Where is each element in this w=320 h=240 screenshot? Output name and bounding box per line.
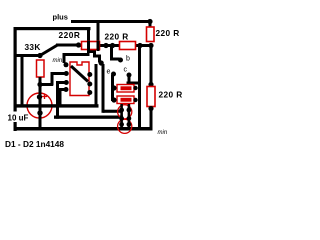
IC pin8 top right: [99, 60, 104, 65]
diode D2 body: [117, 96, 134, 104]
diode D2 left pin: [111, 97, 116, 102]
diode D2 right pin: [133, 98, 137, 102]
IC pin4: [64, 87, 69, 92]
wire pin2 bar: [51, 72, 66, 75]
IC pin7 inner bottom: [87, 90, 92, 95]
wire drop from border top: [87, 28, 90, 53]
wire crossing R1 right: [97, 41, 100, 51]
svg-text:10 uF: 10 uF: [8, 114, 29, 123]
resistor R3 220R body: [147, 27, 155, 42]
wire R4 top feed: [150, 46, 153, 85]
node R4 top: [148, 82, 153, 87]
wire plus rail: [71, 20, 151, 23]
wire U right leg: [95, 64, 98, 108]
svg-text:33K: 33K: [25, 42, 41, 52]
wire R1 row left: [56, 44, 80, 47]
LED pin m1: [119, 116, 124, 121]
wire diode bus vertical: [138, 46, 141, 128]
IC pin2: [64, 71, 69, 76]
capacitor C1 bottom pin: [37, 110, 42, 115]
wire c down: [128, 75, 131, 84]
wire LED left leg: [120, 104, 123, 128]
node R2 left b: [110, 43, 115, 48]
wire x60 vertical: [59, 88, 62, 108]
label 10 uF: [7, 112, 28, 123]
wire x52 vertical: [51, 73, 54, 86]
diode D1 right pin: [133, 86, 137, 90]
capacitor C1 circle: [27, 93, 52, 118]
node R4 bottom: [148, 106, 153, 111]
wire right drop x103: [102, 64, 105, 113]
svg-text:plus: plus: [53, 13, 68, 22]
svg-text:c: c: [124, 67, 128, 74]
transistor pin b: [118, 58, 123, 63]
wire base bar y104: [15, 104, 99, 107]
LED pin m2: [126, 116, 131, 121]
wire b bar: [110, 58, 120, 61]
wire node right bar: [39, 83, 53, 86]
svg-text:min: min: [53, 58, 63, 64]
wire bar to LED top: [103, 110, 123, 113]
svg-text:D1 - D2 1n4148: D1 - D2 1n4148: [5, 139, 64, 149]
IC pin5 inner top: [87, 72, 92, 77]
wire diagonal to R1 row: [40, 45, 58, 56]
resistor R2 220R body: [120, 42, 136, 50]
node 33K bottom: [37, 82, 42, 87]
wire 33K row: [15, 54, 41, 57]
wire staircase right step3: [93, 55, 100, 58]
svg-text:b: b: [126, 56, 130, 63]
IC pin6 inner mid: [87, 82, 92, 87]
svg-text:220 R: 220 R: [156, 28, 180, 38]
wire 33K left drop: [21, 55, 24, 106]
wire resistor row bus: [80, 44, 152, 47]
wire x57 vertical to bottom: [56, 81, 59, 119]
wire R3 top lead: [149, 22, 152, 28]
wire border left: [14, 27, 17, 131]
diode D1 body: [117, 85, 134, 93]
resistor R5 33K body: [37, 60, 45, 77]
wire staircase right step4: [98, 55, 101, 63]
wire pin4 bar: [59, 88, 67, 91]
wire 33K to node: [39, 77, 42, 85]
LED pin a2: [126, 108, 131, 113]
svg-text:e: e: [107, 69, 111, 76]
IC pin1: [64, 62, 69, 67]
wire border top: [14, 27, 91, 30]
resistor R4 220R body: [147, 87, 155, 107]
wire R4 bottom drop: [150, 108, 153, 130]
LED1 circle: [118, 105, 132, 119]
node R2 left a: [103, 43, 108, 48]
capacitor C1 top pin: [37, 94, 42, 99]
svg-text:220R: 220R: [59, 30, 81, 40]
node R3 bottom: [148, 43, 153, 48]
transistor pin e: [111, 72, 116, 77]
IC P1 body: [70, 62, 89, 96]
wire staircase left to IC pin1: [63, 53, 90, 56]
wire staircase right step2: [93, 50, 96, 57]
wire staircase right step1: [87, 50, 96, 53]
diode D1 left pin: [111, 85, 116, 90]
LED2 circle: [118, 119, 132, 133]
wire LED right leg: [128, 104, 131, 128]
svg-text:min: min: [158, 130, 168, 136]
node plus junction: [147, 19, 152, 24]
svg-text:220 R: 220 R: [159, 90, 183, 100]
wire c bar to bus: [127, 82, 141, 85]
wire e bus vertical: [111, 75, 114, 101]
wire staircase left vertical: [63, 53, 66, 63]
node 33K top: [37, 53, 42, 58]
wire crossing R1 left: [87, 41, 90, 51]
wire plus branch down: [97, 21, 100, 45]
node R2 right: [137, 43, 142, 48]
LED pin b2: [126, 122, 131, 127]
wire border bottom: [14, 127, 153, 131]
wire long bar y116: [54, 116, 123, 119]
wire b from R2: [110, 46, 113, 61]
resistor R1 220R body: [82, 42, 100, 50]
LED pin b1: [119, 122, 124, 127]
node R1 left: [76, 42, 81, 47]
IC pin3: [64, 80, 69, 85]
wire cap vertical: [39, 84, 42, 128]
IC P1 wiper diagonal: [71, 66, 88, 82]
capacitor C1 plus mark: [42, 94, 47, 99]
transistor pin c: [127, 73, 132, 78]
LED pin a1: [119, 108, 124, 113]
wire pin3 bar: [56, 81, 66, 84]
svg-text:220 R: 220 R: [105, 32, 129, 42]
